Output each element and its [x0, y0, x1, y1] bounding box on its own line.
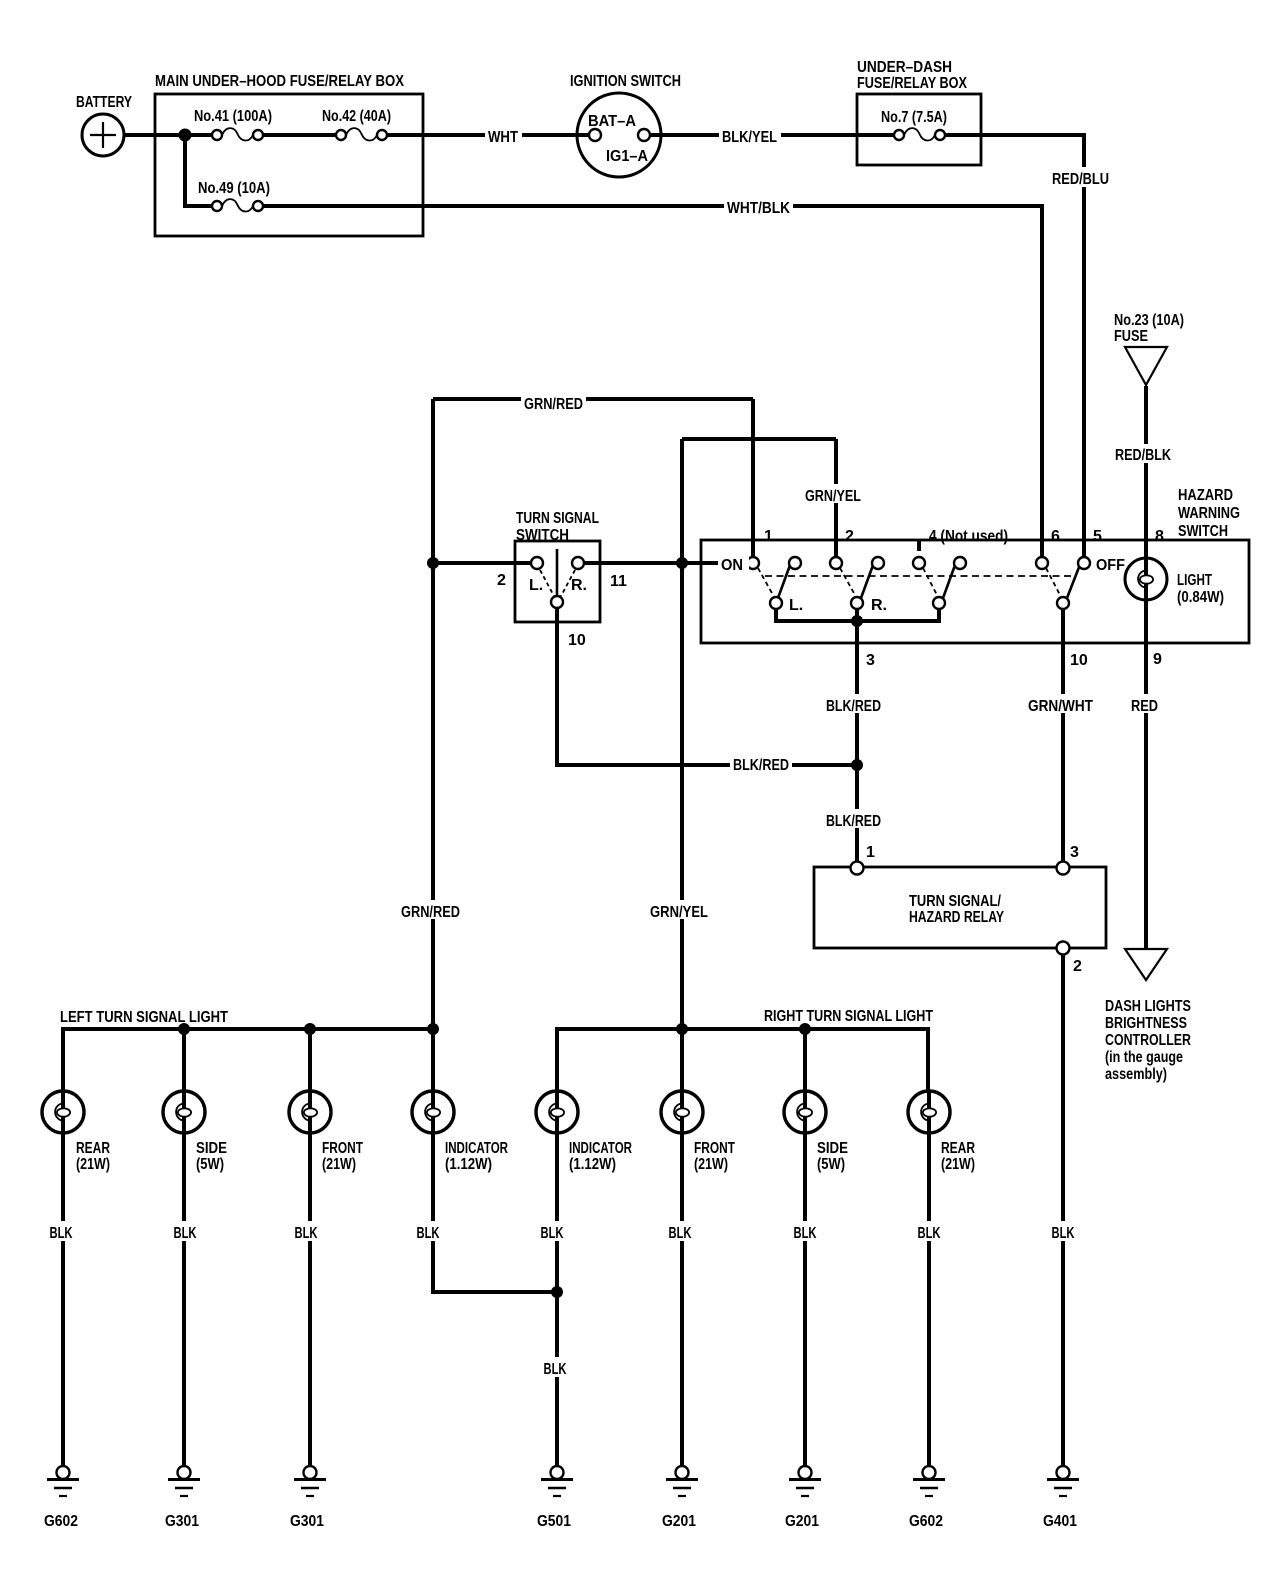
svg-text:SWITCH: SWITCH — [1178, 523, 1228, 540]
svg-text:G201: G201 — [662, 1513, 696, 1530]
svg-text:G201: G201 — [785, 1513, 819, 1530]
svg-text:G501: G501 — [537, 1513, 571, 1530]
relay terminal pin 1 — [851, 862, 864, 875]
svg-text:8: 8 — [1155, 528, 1164, 545]
svg-text:GRN/YEL: GRN/YEL — [805, 488, 861, 505]
svg-text:BLK: BLK — [794, 1225, 817, 1242]
svg-text:2: 2 — [1073, 958, 1082, 975]
svg-text:BLK: BLK — [669, 1225, 692, 1242]
ground G401 — [1047, 1466, 1079, 1496]
hazard terminal pin 4 — [913, 557, 925, 569]
ground G201 right side — [789, 1466, 821, 1496]
wire BLK: relay pin 2 to ground G401 — [1061, 954, 1065, 1466]
svg-text:2: 2 — [845, 528, 854, 545]
svg-text:UNDER–DASH: UNDER–DASH — [857, 59, 952, 76]
ignition switch SW1 — [577, 93, 661, 177]
hazard switch dashed throw pin 1 — [758, 568, 773, 595]
bulb left side (5W) — [163, 1091, 205, 1133]
wire BLK left front bulb to ground G301 — [308, 1133, 312, 1466]
hazard lower contact L — [770, 597, 782, 609]
hazard switch arm L — [778, 557, 793, 598]
wire turn signal switch pin 2 to GRN/RED vertical — [433, 561, 531, 565]
fuse No.7 (7.5A) — [894, 128, 945, 140]
svg-text:OFF: OFF — [1096, 557, 1125, 574]
wire BLK right rear bulb to ground G602 — [927, 1133, 931, 1466]
svg-text:RED/BLK: RED/BLK — [1115, 447, 1171, 464]
svg-text:TURN SIGNAL: TURN SIGNAL — [516, 510, 599, 527]
hazard switch arm 3rd — [943, 557, 958, 598]
ground G602 left — [47, 1466, 79, 1496]
hazard contact b — [872, 557, 884, 569]
svg-text:GRN/RED: GRN/RED — [524, 396, 583, 413]
svg-text:4 (Not used): 4 (Not used) — [929, 528, 1008, 545]
bulb right rear (21W) — [908, 1091, 950, 1133]
node right bus junction GRN/YEL feed — [676, 1023, 688, 1035]
svg-text:BLK: BLK — [174, 1225, 197, 1242]
wire BLK/RED: hazard pin 3 down to relay pin 1 — [855, 621, 859, 862]
node GRN/YEL junction at hazard ON feed — [676, 557, 688, 569]
net label BLK/RED upper — [823, 694, 884, 715]
svg-text:9: 9 — [1153, 651, 1162, 668]
svg-text:BLK: BLK — [918, 1225, 941, 1242]
svg-text:FUSE: FUSE — [1114, 328, 1148, 345]
net label BLK column 9 — [1048, 1221, 1078, 1242]
wire branch down inside fuse box to fuse No.49 — [185, 135, 212, 206]
svg-text:GRN/WHT: GRN/WHT — [1028, 698, 1093, 715]
net label GRN/YEL mid — [647, 900, 711, 921]
net label BLK/RED lower — [823, 809, 884, 830]
hazard switch arm R — [861, 557, 876, 598]
svg-text:R.: R. — [871, 597, 887, 614]
net label BLK column 5 — [537, 1221, 567, 1242]
svg-text:DASH LIGHTS: DASH LIGHTS — [1105, 998, 1191, 1015]
svg-text:BLK/YEL: BLK/YEL — [722, 129, 777, 146]
wire left bus drop to front bulb — [308, 1029, 312, 1091]
wire BLK right indicator bulb to ground G501 — [555, 1133, 559, 1466]
bulb right indicator (1.12W) — [536, 1091, 578, 1133]
ground G602 right rear — [913, 1466, 945, 1496]
svg-text:BLK: BLK — [50, 1225, 73, 1242]
svg-text:WHT: WHT — [488, 129, 518, 146]
wire GRN/RED vertical run to left turn signal bus — [431, 399, 435, 1091]
ground G301 left side — [168, 1466, 200, 1496]
net label BLK column 3 — [291, 1221, 321, 1242]
net label GRN/RED top — [521, 392, 586, 413]
svg-text:(0.84W): (0.84W) — [1177, 589, 1224, 606]
svg-text:IG1–A: IG1–A — [606, 148, 648, 165]
hazard lower contact OFF — [1057, 597, 1069, 609]
hazard switch dashed throw pin 2 — [840, 568, 855, 595]
fuse No.49 (10A) — [212, 199, 263, 211]
battery B1 — [82, 114, 124, 156]
svg-text:RED/BLU: RED/BLU — [1052, 171, 1109, 188]
net label GRN/WHT — [1025, 694, 1096, 715]
wire right turn signal light bus — [557, 1029, 928, 1091]
svg-text:5: 5 — [1093, 528, 1102, 545]
hazard contact c — [954, 557, 966, 569]
net label BLK column 4 — [413, 1221, 443, 1242]
svg-text:GRN/RED: GRN/RED — [401, 904, 460, 921]
node GRN/RED junction at turn signal switch feed — [427, 557, 439, 569]
hazard lower contact R — [851, 597, 863, 609]
fuse No.42 (40A) — [336, 128, 387, 140]
wire BLK right side bulb to ground G201 — [803, 1133, 807, 1466]
wire GRN/YEL drop to hazard pin 2 — [834, 439, 838, 557]
node indicator ground junction — [551, 1286, 563, 1298]
net label BLK column 2 — [170, 1221, 200, 1242]
hazard switch dashed throw pin 4 — [923, 568, 937, 595]
svg-text:HAZARD RELAY: HAZARD RELAY — [909, 909, 1004, 926]
svg-text:10: 10 — [1070, 652, 1088, 669]
svg-text:GRN/YEL: GRN/YEL — [650, 904, 708, 921]
svg-text:REAR: REAR — [941, 1140, 975, 1157]
net label BLK column 8 — [914, 1221, 944, 1242]
svg-text:SWITCH: SWITCH — [516, 527, 569, 544]
net label BLK column 7 — [790, 1221, 820, 1242]
ground G501 — [541, 1466, 573, 1496]
node right bus junction side — [799, 1023, 811, 1035]
wire turn signal switch pin 11 to hazard switch ON pin 1 — [584, 561, 747, 565]
turn signal switch terminal pin 10 — [551, 596, 563, 608]
ground G201 right front — [666, 1466, 698, 1496]
turn signal switch terminal pin 2 — [531, 557, 543, 569]
wire GRN/YEL horizontal run — [682, 437, 836, 441]
svg-text:1: 1 — [866, 844, 875, 861]
svg-text:G401: G401 — [1043, 1513, 1077, 1530]
relay terminal pin 2 — [1057, 942, 1070, 955]
svg-text:(5W): (5W) — [196, 1156, 224, 1173]
svg-text:G301: G301 — [290, 1513, 324, 1530]
svg-text:3: 3 — [1070, 844, 1079, 861]
wire GRN/WHT: hazard pin 10 to relay pin 3 — [1061, 609, 1065, 862]
svg-text:No.49 (10A): No.49 (10A) — [198, 180, 270, 197]
turn signal/hazard relay box — [814, 867, 1106, 948]
svg-text:G602: G602 — [909, 1513, 943, 1530]
svg-text:CONTROLLER: CONTROLLER — [1105, 1032, 1191, 1049]
bulb right front (21W) — [661, 1091, 703, 1133]
ground G301 left front — [294, 1466, 326, 1496]
turn signal switch box — [515, 541, 600, 622]
svg-text:2: 2 — [497, 572, 506, 589]
svg-text:BRIGHTNESS: BRIGHTNESS — [1105, 1015, 1187, 1032]
svg-text:(21W): (21W) — [322, 1156, 356, 1173]
svg-text:(21W): (21W) — [941, 1156, 975, 1173]
svg-text:BATTERY: BATTERY — [76, 94, 132, 111]
hazard switch L-R output bus — [776, 609, 939, 621]
net label WHT/BLK — [724, 196, 793, 217]
svg-text:RIGHT TURN SIGNAL LIGHT: RIGHT TURN SIGNAL LIGHT — [764, 1008, 933, 1025]
svg-text:BLK: BLK — [544, 1361, 567, 1378]
hazard switch arm OFF — [1067, 557, 1083, 598]
relay terminal pin 3 — [1057, 862, 1070, 875]
hazard switch light bulb L1 (0.84W) — [1125, 558, 1167, 600]
svg-text:WHT/BLK: WHT/BLK — [727, 200, 790, 217]
wire BLK/RED: turn signal switch pin 10 run — [557, 608, 857, 765]
svg-text:No.23 (10A): No.23 (10A) — [1114, 312, 1184, 329]
svg-text:R.: R. — [571, 577, 587, 594]
bulb right side (5W) — [784, 1091, 826, 1133]
svg-text:No.42 (40A): No.42 (40A) — [322, 108, 391, 125]
svg-text:FRONT: FRONT — [322, 1140, 363, 1157]
svg-text:SIDE: SIDE — [196, 1140, 227, 1157]
hazard switch ganged dashed link — [765, 575, 1072, 577]
under-dash fuse/relay box outline — [857, 94, 981, 165]
svg-text:REAR: REAR — [76, 1140, 110, 1157]
hazard switch dashed throw pin 6 — [1046, 568, 1060, 595]
wire hazard pin 1 drop — [751, 399, 755, 557]
net label BLK below indicator junction — [540, 1357, 570, 1378]
net label BLK column 6 — [665, 1221, 695, 1242]
svg-text:MAIN UNDER–HOOD FUSE/RELAY BOX: MAIN UNDER–HOOD FUSE/RELAY BOX — [155, 73, 404, 90]
main under-hood fuse/relay box outline — [155, 94, 423, 236]
svg-text:No.7 (7.5A): No.7 (7.5A) — [881, 109, 947, 126]
bulb left indicator (1.12W) — [412, 1091, 454, 1133]
wire BLK/YEL: ignition IG1-A to under-dash fuse No.7 — [650, 133, 894, 137]
hazard terminal pin 5 OFF — [1078, 557, 1090, 569]
svg-text:WARNING: WARNING — [1178, 505, 1240, 522]
svg-text:BLK: BLK — [541, 1225, 564, 1242]
svg-text:FUSE/RELAY BOX: FUSE/RELAY BOX — [857, 75, 967, 92]
hazard terminal pin 1 ON — [747, 557, 759, 569]
svg-text:6: 6 — [1051, 528, 1060, 545]
fuse No.23 (10A) symbol — [1125, 347, 1167, 385]
svg-text:No.41 (100A): No.41 (100A) — [194, 108, 272, 125]
wire WHT: fuse42 to ignition switch BAT-A — [387, 133, 589, 137]
wire RED/BLU: fuse No.7 to hazard switch pin 5 — [945, 135, 1084, 557]
wire battery to fuse No.41 (WHT feed) — [124, 133, 212, 137]
svg-text:(1.12W): (1.12W) — [445, 1156, 492, 1173]
wire GRN/RED horizontal top run — [433, 397, 753, 401]
svg-text:ON: ON — [721, 557, 743, 574]
svg-text:BAT–A: BAT–A — [588, 113, 636, 130]
svg-text:BLK/RED: BLK/RED — [733, 757, 789, 774]
turn signal switch dashed throws — [540, 570, 554, 596]
svg-text:LIGHT: LIGHT — [1177, 572, 1212, 589]
wire fuse41 to fuse42 — [263, 133, 336, 137]
hazard warning switch box — [701, 540, 1249, 643]
hazard contact a — [789, 557, 801, 569]
wire left bus drop to side bulb — [182, 1029, 186, 1091]
net label BLK/YEL — [719, 125, 781, 146]
net label BLK column 1 — [46, 1221, 76, 1242]
position label ON — [718, 553, 749, 574]
hazard terminal pin 2 — [830, 557, 842, 569]
svg-text:INDICATOR: INDICATOR — [569, 1140, 632, 1157]
wire BLK left indicator jog to G501 line — [433, 1133, 557, 1292]
svg-text:10: 10 — [568, 632, 586, 649]
node BLK/RED junction — [851, 759, 863, 771]
net label RED — [1128, 694, 1161, 715]
svg-text:TURN SIGNAL/: TURN SIGNAL/ — [909, 893, 1001, 910]
svg-text:(21W): (21W) — [694, 1156, 728, 1173]
net label GRN/RED mid — [398, 900, 463, 921]
svg-text:FRONT: FRONT — [694, 1140, 735, 1157]
svg-text:IGNITION SWITCH: IGNITION SWITCH — [570, 73, 681, 90]
node left bus junction indicator — [427, 1023, 439, 1035]
node left bus junction side — [178, 1023, 190, 1035]
svg-text:HAZARD: HAZARD — [1178, 487, 1233, 504]
svg-text:L.: L. — [789, 597, 803, 614]
svg-text:(21W): (21W) — [76, 1156, 110, 1173]
wire RED/BLK: fuse No.23 to hazard pin 8 light — [1144, 386, 1148, 558]
bulb left rear (21W) — [42, 1091, 84, 1133]
bulb left front (21W) — [289, 1091, 331, 1133]
wire GRN/YEL vertical run to right turn signal bus — [680, 439, 684, 1029]
wire RED: hazard pin 9 to dash lights brightness controller — [1144, 600, 1148, 949]
svg-text:BLK: BLK — [295, 1225, 318, 1242]
svg-text:(1.12W): (1.12W) — [569, 1156, 616, 1173]
dash lights brightness controller arrow symbol — [1125, 949, 1167, 980]
wire BLK left side bulb to ground G301 — [182, 1133, 186, 1466]
svg-text:3: 3 — [866, 652, 875, 669]
net label WHT — [485, 125, 522, 146]
svg-text:LEFT TURN SIGNAL LIGHT: LEFT TURN SIGNAL LIGHT — [60, 1009, 228, 1026]
wire left turn signal light bus — [63, 1029, 433, 1091]
svg-text:G301: G301 — [165, 1513, 199, 1530]
svg-text:BLK: BLK — [417, 1225, 440, 1242]
wire right bus drop to front bulb — [680, 1029, 684, 1091]
turn signal switch terminal pin 11 — [572, 557, 584, 569]
wire hazard pin 4 stub (not used) — [917, 539, 921, 551]
svg-text:G602: G602 — [44, 1513, 78, 1530]
node hazard L-R bus junction — [851, 615, 863, 627]
svg-text:(5W): (5W) — [817, 1156, 845, 1173]
hazard lower contact 3rd — [933, 597, 945, 609]
svg-text:RED: RED — [1131, 698, 1158, 715]
net label BLK/RED horizontal — [730, 753, 792, 774]
svg-text:1: 1 — [764, 528, 773, 545]
svg-text:INDICATOR: INDICATOR — [445, 1140, 508, 1157]
wire BLK right front bulb to ground G201 — [680, 1133, 684, 1466]
wire BLK left rear bulb to ground G602 — [61, 1133, 65, 1466]
net label RED/BLK — [1112, 444, 1174, 464]
svg-text:L.: L. — [529, 577, 543, 594]
svg-text:BLK: BLK — [1052, 1225, 1075, 1242]
fuse No.41 (100A) — [212, 128, 263, 140]
svg-text:BLK/RED: BLK/RED — [826, 698, 881, 715]
svg-text:SIDE: SIDE — [817, 1140, 848, 1157]
node left bus junction front — [304, 1023, 316, 1035]
svg-text:BLK/RED: BLK/RED — [826, 813, 881, 830]
node battery feed junction — [179, 129, 192, 142]
svg-text:11: 11 — [610, 573, 627, 590]
wire WHT/BLK: fuse No.49 to hazard switch pin 6 — [263, 206, 1042, 557]
svg-text:(in the gauge: (in the gauge — [1105, 1049, 1183, 1066]
svg-text:assembly): assembly) — [1105, 1066, 1167, 1083]
net label GRN/YEL upper — [802, 484, 864, 505]
hazard terminal pin 6 — [1036, 557, 1048, 569]
turn signal switch contact arm — [556, 549, 559, 596]
wire right bus drop to side bulb — [803, 1029, 807, 1091]
net label RED/BLU — [1049, 167, 1113, 188]
